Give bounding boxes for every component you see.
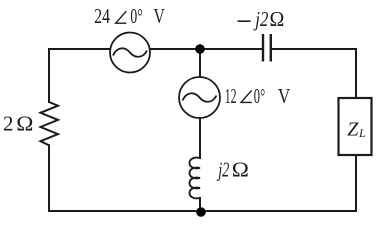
svg-text:V: V bbox=[154, 5, 166, 29]
svg-text:12: 12 bbox=[225, 84, 237, 107]
svg-text:Ω: Ω bbox=[270, 8, 285, 31]
svg-text:j2: j2 bbox=[253, 8, 269, 31]
svg-text:0°: 0° bbox=[130, 4, 142, 28]
svg-text:V: V bbox=[278, 85, 291, 108]
svg-text:Ω: Ω bbox=[232, 157, 249, 181]
svg-text:24: 24 bbox=[94, 5, 110, 29]
svg-text:j2: j2 bbox=[217, 158, 230, 181]
svg-text:Ω: Ω bbox=[16, 111, 33, 135]
svg-text:L: L bbox=[358, 126, 366, 140]
svg-text:0°: 0° bbox=[254, 85, 265, 108]
svg-text:Z: Z bbox=[347, 118, 359, 140]
svg-text:2: 2 bbox=[3, 111, 14, 135]
